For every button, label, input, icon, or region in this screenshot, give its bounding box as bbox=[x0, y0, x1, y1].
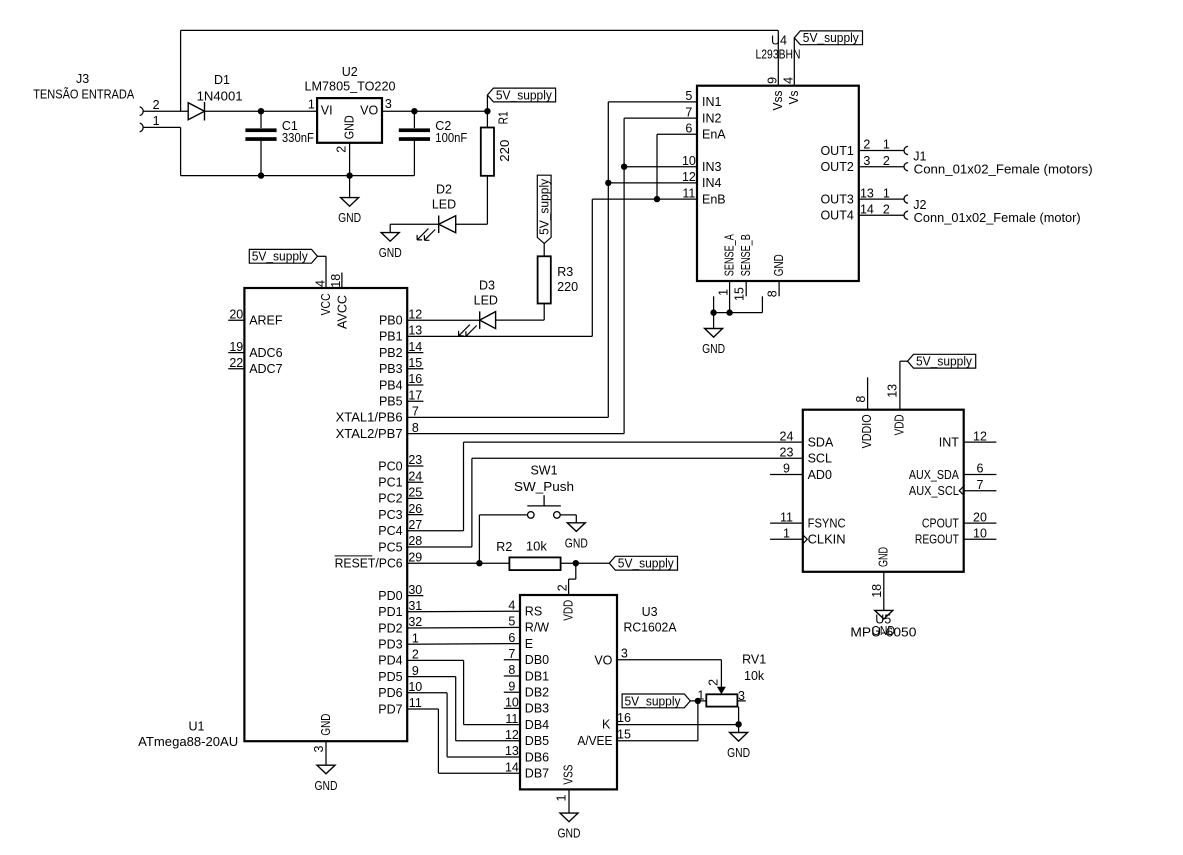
svg-text:4: 4 bbox=[314, 280, 328, 287]
regulator U2 bbox=[305, 65, 396, 153]
svg-text:220: 220 bbox=[557, 280, 578, 294]
svg-text:U4: U4 bbox=[771, 33, 787, 47]
junction EnA/EnB bbox=[654, 196, 660, 202]
svg-text:10: 10 bbox=[505, 696, 519, 710]
svg-text:11: 11 bbox=[505, 712, 518, 726]
svg-text:PC4: PC4 bbox=[378, 524, 402, 538]
U3 pin 12 (DB5) bbox=[505, 728, 549, 748]
wire PD4 riser bbox=[463, 660, 465, 724]
svg-text:U3: U3 bbox=[642, 605, 658, 619]
U5 pin 18 (GND) bbox=[870, 547, 891, 610]
svg-text:IN4: IN4 bbox=[702, 176, 722, 190]
svg-text:15: 15 bbox=[733, 287, 747, 301]
wire VCC down bbox=[325, 256, 327, 288]
svg-text:DB3: DB3 bbox=[525, 702, 549, 716]
svg-text:Conn_01x02_Female (motor): Conn_01x02_Female (motor) bbox=[914, 211, 1081, 225]
wire U2 GND pin down bbox=[349, 143, 351, 198]
wire VO out bbox=[617, 659, 721, 661]
wire U4 gnd net right vertical bbox=[761, 296, 763, 312]
svg-text:PD5: PD5 bbox=[378, 670, 402, 684]
svg-text:RV1: RV1 bbox=[742, 653, 766, 667]
U5 pin 1 (CLKIN) bbox=[770, 527, 846, 547]
wire to SW1 bbox=[479, 514, 527, 516]
resistor R2 bbox=[496, 540, 560, 570]
U1 pin 25 (PC2) bbox=[378, 486, 423, 506]
junction R2/VDD bbox=[573, 560, 579, 566]
wire SW1 riser bbox=[478, 515, 480, 563]
U3 pin 16 (K) bbox=[602, 711, 631, 732]
IMU U5 MPU-6050 bbox=[803, 410, 964, 572]
wire A/VEE out bbox=[617, 740, 698, 742]
junction U4 gnd 1 bbox=[710, 309, 716, 315]
svg-text:16: 16 bbox=[408, 372, 422, 386]
svg-text:25: 25 bbox=[408, 486, 422, 500]
svg-text:GND: GND bbox=[379, 246, 402, 260]
svg-text:2: 2 bbox=[556, 584, 570, 591]
svg-text:VO: VO bbox=[360, 103, 378, 117]
junction RV1 pin1/A bbox=[695, 698, 701, 704]
U1 pin 18 (AVCC) stub bbox=[329, 273, 349, 330]
svg-text:PB5: PB5 bbox=[379, 395, 403, 409]
wire to C2 bbox=[413, 111, 415, 128]
wire PB7 to IN2/IN3 net bbox=[407, 433, 624, 435]
wire K to gnd node bbox=[617, 724, 739, 726]
wire R1 down bbox=[486, 176, 488, 224]
U1 pin 13 (PB1) bbox=[379, 324, 422, 344]
U5 pin 12 (INT) bbox=[939, 429, 997, 449]
U4 pin 13 (OUT3) bbox=[820, 186, 873, 206]
wire J1 pin 2 bbox=[859, 166, 904, 168]
svg-text:SCL: SCL bbox=[808, 452, 832, 466]
junction U2 gnd at rail bbox=[346, 172, 352, 178]
U5 reference labels bbox=[850, 613, 916, 640]
wire D1 to U2 VI bbox=[205, 110, 318, 112]
svg-text:8: 8 bbox=[854, 396, 868, 403]
wire VDD jog 2 bbox=[569, 578, 576, 580]
svg-text:1: 1 bbox=[783, 527, 790, 541]
U1 pin 1 (PD3) bbox=[378, 631, 419, 651]
U3 pin 7 (DB0) bbox=[504, 647, 549, 667]
svg-text:IN3: IN3 bbox=[702, 160, 722, 174]
svg-text:GND: GND bbox=[315, 779, 338, 793]
svg-text:PB4: PB4 bbox=[379, 378, 403, 392]
power flag 5V_supply (U1 VCC) bbox=[249, 249, 317, 263]
svg-text:RS: RS bbox=[525, 605, 542, 619]
connector J1 bbox=[859, 138, 1093, 177]
D2 emission arrows bbox=[417, 229, 435, 241]
svg-text:5V_supply: 5V_supply bbox=[252, 250, 309, 264]
wire to 5V flag bbox=[486, 95, 488, 111]
svg-text:5V_supply: 5V_supply bbox=[618, 557, 675, 571]
svg-text:11: 11 bbox=[780, 510, 793, 524]
svg-text:20: 20 bbox=[229, 307, 243, 321]
svg-text:TENSÃO ENTRADA: TENSÃO ENTRADA bbox=[33, 87, 135, 101]
U4 pin 9 (Vss) bbox=[766, 77, 785, 111]
svg-text:5V_supply: 5V_supply bbox=[496, 88, 553, 102]
svg-text:18: 18 bbox=[329, 274, 343, 288]
junction RESET/SW1 bbox=[476, 560, 482, 566]
potentiometer RV1 10k bbox=[697, 653, 766, 707]
wire PD7 riser bbox=[437, 709, 439, 773]
svg-text:D3: D3 bbox=[479, 279, 495, 293]
U1 pin 9 (PD5) bbox=[378, 664, 419, 684]
U1 pin 19 (ADC6) bbox=[228, 340, 282, 360]
U1 pin 7 (XTAL1/PB6) bbox=[336, 405, 419, 425]
svg-text:17: 17 bbox=[408, 388, 422, 402]
svg-text:SW_Push: SW_Push bbox=[514, 480, 574, 494]
svg-text:GND: GND bbox=[565, 536, 588, 550]
svg-text:2: 2 bbox=[863, 138, 870, 152]
U1 pin 29 (RESET/PC6) bbox=[335, 550, 423, 570]
svg-text:VDDIO: VDDIO bbox=[860, 414, 874, 448]
svg-text:SDA: SDA bbox=[808, 435, 834, 449]
svg-text:15: 15 bbox=[617, 727, 631, 741]
svg-text:6: 6 bbox=[508, 631, 515, 645]
wire PD5 out bbox=[407, 676, 456, 678]
U1 pin 24 (PC1) bbox=[378, 469, 423, 489]
U1 pin 17 (PB5) bbox=[379, 388, 423, 408]
wire PD1 to U3 bbox=[407, 610, 520, 613]
svg-text:K: K bbox=[602, 718, 611, 732]
wire top rail to U4 Vss bbox=[181, 29, 779, 31]
svg-text:14: 14 bbox=[408, 340, 422, 354]
svg-text:DB0: DB0 bbox=[525, 653, 549, 667]
U4 pin 12 (IN4) bbox=[682, 170, 722, 190]
U4 pin 10 (IN3) bbox=[682, 154, 722, 174]
svg-text:VI: VI bbox=[321, 103, 333, 117]
svg-text:9: 9 bbox=[766, 77, 780, 84]
connector J2 bbox=[859, 186, 1081, 225]
U1 pin 22 (ADC7) bbox=[228, 356, 282, 376]
wire ground rail bbox=[181, 175, 415, 177]
svg-text:5V_supply: 5V_supply bbox=[538, 178, 552, 235]
svg-text:EnA: EnA bbox=[702, 128, 726, 142]
wire battery+ riser to top bbox=[180, 30, 182, 111]
svg-text:VDD: VDD bbox=[892, 414, 906, 435]
svg-text:1: 1 bbox=[153, 114, 160, 128]
svg-text:PB0: PB0 bbox=[379, 314, 403, 328]
capacitor C1 bbox=[245, 119, 314, 145]
svg-text:11: 11 bbox=[682, 186, 695, 200]
svg-text:100nF: 100nF bbox=[435, 131, 467, 145]
wire SCL riser bbox=[471, 458, 473, 547]
wire VDD jog 1 bbox=[575, 563, 577, 579]
U1 pin 3 (GND) bbox=[312, 714, 333, 766]
U1 pin 26 (PC3) bbox=[378, 502, 423, 522]
wire R2 to 5V bbox=[561, 562, 610, 564]
junction IN1/IN4 bbox=[605, 180, 611, 186]
svg-text:6: 6 bbox=[685, 122, 692, 136]
wire R1 to D2 anode bbox=[456, 223, 488, 225]
wire J3.1 right bbox=[143, 126, 180, 128]
svg-text:7: 7 bbox=[685, 105, 692, 119]
svg-text:10k: 10k bbox=[526, 540, 548, 554]
wire J1 pin 1 bbox=[859, 150, 904, 152]
wire SW1 to gnd bbox=[560, 514, 576, 516]
U1 pin 15 (PB3) bbox=[379, 356, 423, 376]
svg-text:AUX_SDA: AUX_SDA bbox=[909, 468, 960, 482]
svg-text:3: 3 bbox=[621, 647, 628, 661]
svg-text:GND: GND bbox=[877, 547, 891, 567]
svg-text:5: 5 bbox=[508, 615, 515, 629]
svg-text:LED: LED bbox=[474, 293, 498, 307]
power flag 5V_supply (U4 Vs) bbox=[794, 31, 862, 45]
svg-text:VCC: VCC bbox=[319, 293, 333, 315]
svg-text:13: 13 bbox=[408, 324, 422, 338]
svg-text:DB5: DB5 bbox=[525, 734, 549, 748]
svg-text:PC3: PC3 bbox=[378, 508, 402, 522]
wire down to gnd bbox=[389, 224, 391, 232]
svg-text:OUT1: OUT1 bbox=[820, 144, 853, 158]
svg-text:26: 26 bbox=[408, 502, 422, 516]
U3 pin 5 (R/W) bbox=[508, 615, 549, 635]
power flag 5V_supply (U5 VDD) bbox=[908, 354, 976, 368]
LED D2 bbox=[417, 182, 456, 240]
power flag 5V_supply (R2) bbox=[609, 556, 677, 570]
switch SW1 SW_Push bbox=[514, 464, 574, 519]
svg-text:330nF: 330nF bbox=[282, 131, 314, 145]
wire to C1 bbox=[260, 111, 262, 128]
wire IN1 riser bbox=[607, 102, 609, 418]
wire VO down to RV1 wiper bbox=[720, 660, 722, 688]
U1 pin 31 (PD1) bbox=[378, 599, 422, 619]
U5 pin 23 (SCL) bbox=[780, 446, 832, 466]
U5 pin 13 (VDD) bbox=[886, 384, 907, 436]
svg-text:32: 32 bbox=[408, 615, 422, 629]
U1 pin 14 (PB2) bbox=[379, 340, 423, 360]
wire to DB8 bbox=[456, 740, 520, 742]
svg-text:R2: R2 bbox=[496, 540, 512, 554]
U4 pin 5 (IN1) bbox=[685, 89, 721, 109]
U3 pin 9 (DB2) bbox=[504, 679, 549, 699]
U3 pin 14 (DB7) bbox=[505, 760, 549, 780]
wire J3.2 to D1 anode bbox=[143, 110, 188, 112]
svg-text:IN2: IN2 bbox=[702, 111, 722, 125]
svg-text:PD7: PD7 bbox=[378, 702, 402, 716]
wire PD6 out bbox=[407, 692, 447, 694]
svg-text:AVCC: AVCC bbox=[336, 295, 350, 329]
wire IN3 bbox=[624, 166, 697, 168]
svg-text:INT: INT bbox=[939, 435, 960, 449]
svg-text:GND: GND bbox=[772, 254, 786, 276]
ground below RV1 bbox=[727, 733, 750, 761]
svg-text:8: 8 bbox=[412, 421, 419, 435]
ground below U2 bbox=[338, 198, 361, 226]
svg-text:1: 1 bbox=[555, 795, 569, 802]
svg-text:VSS: VSS bbox=[562, 765, 576, 785]
resistor R3 bbox=[538, 256, 579, 303]
junction C1 top bbox=[258, 108, 264, 114]
wire R3 down bbox=[543, 304, 545, 321]
svg-text:PC0: PC0 bbox=[378, 459, 402, 473]
power flag 5V_supply (regulator output) bbox=[487, 88, 555, 102]
svg-text:PD3: PD3 bbox=[378, 638, 402, 652]
svg-text:RESET/PC6: RESET/PC6 bbox=[335, 557, 403, 571]
svg-text:6: 6 bbox=[977, 462, 984, 476]
svg-text:J2: J2 bbox=[913, 198, 926, 212]
wire IN4 bbox=[608, 182, 697, 184]
svg-text:3: 3 bbox=[312, 746, 326, 753]
U5 pin 24 (SDA) bbox=[780, 429, 834, 449]
svg-text:1: 1 bbox=[883, 186, 890, 200]
wire SDA bbox=[464, 441, 803, 443]
wire PB6 to IN1/IN4 net bbox=[407, 416, 608, 418]
junction IN2/IN3 bbox=[621, 164, 627, 170]
svg-text:14: 14 bbox=[505, 760, 519, 774]
svg-text:R3: R3 bbox=[557, 265, 573, 279]
U4 pin 11 (EnB) bbox=[682, 186, 725, 206]
svg-text:31: 31 bbox=[408, 599, 422, 613]
U4 pin 6 (EnA) bbox=[685, 122, 726, 142]
svg-text:PC5: PC5 bbox=[378, 540, 402, 554]
svg-text:CLKIN: CLKIN bbox=[808, 533, 846, 547]
svg-text:PD0: PD0 bbox=[378, 589, 402, 603]
diode D1 bbox=[188, 73, 242, 120]
svg-text:16: 16 bbox=[617, 711, 631, 725]
wire D3 cathode to PB0 bbox=[407, 319, 480, 321]
wire IN2 riser bbox=[623, 118, 625, 434]
svg-text:28: 28 bbox=[408, 534, 422, 548]
power flag 5V_supply (RV1) bbox=[622, 694, 690, 708]
svg-text:2: 2 bbox=[412, 648, 419, 662]
svg-text:Conn_01x02_Female (motors): Conn_01x02_Female (motors) bbox=[914, 163, 1093, 177]
U3 pin 3 (VO) bbox=[594, 647, 627, 668]
power flag 5V_supply (R3) bbox=[537, 175, 551, 243]
svg-text:OUT2: OUT2 bbox=[820, 160, 853, 174]
svg-text:1: 1 bbox=[717, 289, 731, 296]
svg-text:13: 13 bbox=[505, 744, 519, 758]
U4 pin 4 (Vs) bbox=[781, 77, 801, 105]
svg-text:VO: VO bbox=[594, 654, 612, 668]
svg-text:2: 2 bbox=[883, 154, 890, 168]
svg-text:XTAL1/PB6: XTAL1/PB6 bbox=[336, 411, 403, 425]
svg-text:8: 8 bbox=[765, 290, 779, 297]
svg-text:24: 24 bbox=[408, 469, 422, 483]
wire VDD to flag bbox=[900, 360, 908, 362]
wire to DB7 bbox=[464, 724, 520, 726]
svg-text:R1: R1 bbox=[497, 111, 511, 124]
svg-text:PB2: PB2 bbox=[379, 346, 403, 360]
svg-text:10: 10 bbox=[408, 680, 422, 694]
U1 pin 2 (PD4) bbox=[378, 648, 419, 668]
U1 pin 32 (PD2) bbox=[378, 615, 422, 635]
svg-text:12: 12 bbox=[682, 170, 696, 184]
wire EnB riser bbox=[591, 199, 593, 336]
wire SDA riser bbox=[463, 442, 465, 531]
svg-text:24: 24 bbox=[780, 429, 794, 443]
wire PB1 to EnA/EnB net bbox=[407, 335, 592, 337]
wire to DB9 bbox=[447, 756, 520, 758]
svg-text:1: 1 bbox=[308, 97, 315, 111]
wire PD3 to U3 bbox=[407, 643, 520, 646]
svg-text:SENSE_B: SENSE_B bbox=[739, 234, 753, 276]
svg-text:DB1: DB1 bbox=[525, 669, 549, 683]
svg-text:IN1: IN1 bbox=[702, 95, 722, 109]
svg-text:SENSE_A: SENSE_A bbox=[723, 234, 737, 276]
svg-text:9: 9 bbox=[508, 679, 515, 693]
svg-text:GND: GND bbox=[702, 342, 725, 356]
wire PD6 riser bbox=[446, 693, 448, 757]
svg-text:PD6: PD6 bbox=[378, 686, 402, 700]
U5 pin 8 (VDDIO) stub bbox=[854, 377, 874, 448]
wire VDD jog 3 bbox=[568, 579, 570, 595]
wire R3 to D3 anode bbox=[496, 319, 545, 321]
junction C2 top bbox=[411, 108, 417, 114]
wire PC5 out bbox=[407, 546, 472, 548]
U1 pin 27 (PC4) bbox=[378, 518, 422, 538]
svg-text:ADC7: ADC7 bbox=[249, 362, 282, 376]
svg-text:11: 11 bbox=[409, 696, 422, 710]
junction C1 bottom bbox=[258, 172, 264, 178]
svg-text:A/VEE: A/VEE bbox=[577, 734, 612, 748]
svg-text:J3: J3 bbox=[76, 72, 89, 86]
U3 pin 4 (RS) bbox=[508, 598, 542, 618]
svg-text:REGOUT: REGOUT bbox=[915, 533, 959, 547]
svg-text:J1: J1 bbox=[913, 150, 926, 164]
resistor R1 bbox=[481, 111, 512, 175]
svg-text:OUT3: OUT3 bbox=[820, 192, 853, 206]
svg-text:10: 10 bbox=[682, 154, 696, 168]
svg-text:DB4: DB4 bbox=[525, 718, 549, 732]
ground below U3 bbox=[558, 813, 581, 841]
wire U2 VO to R1/5V bbox=[382, 110, 487, 112]
U4 pin 14 (OUT4) bbox=[820, 203, 873, 223]
junction R1 top bbox=[484, 108, 490, 114]
U5 pin 10 (REGOUT) bbox=[915, 527, 997, 547]
svg-text:D1: D1 bbox=[214, 73, 230, 87]
svg-text:LM7805_TO220: LM7805_TO220 bbox=[305, 80, 396, 94]
svg-text:DB7: DB7 bbox=[525, 767, 549, 781]
svg-text:29: 29 bbox=[408, 550, 422, 564]
svg-text:PD1: PD1 bbox=[378, 605, 402, 619]
wire 5V to R1 bbox=[486, 111, 488, 127]
svg-text:30: 30 bbox=[408, 583, 422, 597]
wire D2 cathode to gnd bbox=[390, 223, 439, 225]
svg-text:19: 19 bbox=[229, 340, 243, 354]
U5 pin 7 (AUX_SCL) bbox=[909, 478, 997, 498]
svg-text:5V_supply: 5V_supply bbox=[803, 31, 860, 45]
wire J3.1 down to gnd rail bbox=[180, 127, 182, 175]
svg-text:AD0: AD0 bbox=[808, 468, 832, 482]
svg-text:13: 13 bbox=[860, 186, 874, 200]
U1 pin 20 (AREF) bbox=[228, 307, 283, 327]
wire EnA riser bbox=[656, 134, 658, 199]
U1 pin 8 (XTAL2/PB7) bbox=[336, 421, 419, 441]
svg-text:2: 2 bbox=[335, 146, 349, 153]
U4 pin 3 (OUT2) bbox=[820, 154, 870, 174]
wire VDD riser bbox=[899, 361, 901, 410]
wire SCL bbox=[472, 457, 803, 459]
U1 pin 4 (VCC) bbox=[314, 280, 334, 315]
U5 pin 20 (CPOUT) bbox=[922, 510, 997, 530]
svg-text:DB6: DB6 bbox=[525, 750, 549, 764]
wire J2 pin 2 bbox=[859, 214, 904, 216]
svg-text:1: 1 bbox=[883, 138, 890, 152]
svg-text:23: 23 bbox=[408, 453, 422, 467]
svg-text:Vss: Vss bbox=[771, 91, 785, 111]
svg-text:7: 7 bbox=[412, 405, 419, 419]
svg-text:20: 20 bbox=[973, 510, 987, 524]
U3 pin 13 (DB6) bbox=[505, 744, 549, 764]
microcontroller U1 ATmega88-20AU bbox=[138, 288, 407, 749]
svg-text:22: 22 bbox=[229, 356, 243, 370]
U3 pin 15 (A/VEE) bbox=[577, 727, 631, 748]
ground below U1 bbox=[315, 765, 338, 793]
svg-text:12: 12 bbox=[505, 728, 519, 742]
svg-text:5: 5 bbox=[685, 89, 692, 103]
svg-text:CPOUT: CPOUT bbox=[922, 516, 959, 530]
svg-text:10: 10 bbox=[973, 527, 987, 541]
